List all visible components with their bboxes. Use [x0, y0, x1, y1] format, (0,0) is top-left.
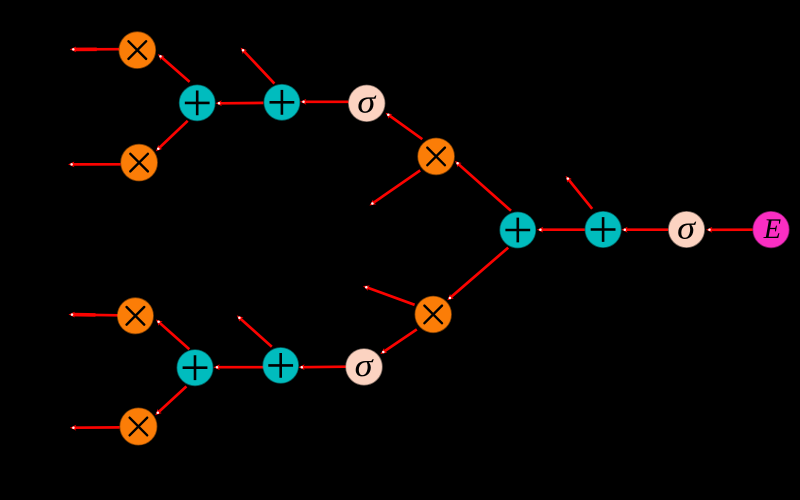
error node N10 (circle with letter E)	[753, 212, 789, 248]
wire from plus N14 to times N16	[155, 386, 186, 415]
sigmoid node N12 (circle with sigma)	[346, 349, 382, 385]
wire from plus N14 to times N15	[156, 320, 189, 350]
wire from plus N3 to times N1	[158, 54, 190, 82]
add node N14 (circle with plus sign)	[177, 350, 212, 385]
wire from plus N4 to plus N3	[216, 100, 264, 106]
wire from sigma N5 to plus N4	[300, 99, 349, 105]
add node N13 (circle with plus sign)	[263, 348, 298, 383]
wire stub from times N11 to input label	[363, 286, 415, 305]
wire stub from plus N8 to bias label	[566, 176, 593, 209]
wire from times N16 to weight label (left)	[70, 425, 120, 431]
wire from plus N7 to times N11	[447, 248, 508, 301]
wire from sigma N9 to plus N8	[621, 227, 668, 233]
wire from plus N7 to times N6	[455, 161, 511, 211]
wire from plus N3 to times N2	[156, 121, 188, 151]
add node N8 (circle with plus sign)	[585, 212, 620, 247]
add node N7 (circle with plus sign)	[500, 212, 535, 247]
multiply node N16 (circle with times sign)	[120, 408, 156, 444]
wire stub from plus N4 to bias label	[241, 48, 275, 84]
wire from plus N13 to plus N14	[214, 364, 265, 370]
multiply node N6 (circle with times sign)	[418, 138, 454, 174]
wire from E N10 to sigma N9	[706, 227, 753, 233]
wire from times N6 to sigma N5	[386, 113, 423, 139]
multiply node N2 (circle with times sign)	[121, 145, 157, 181]
wire from sigma N12 to plus N13	[298, 364, 346, 370]
wire from times N15 to weight label (left)	[69, 312, 119, 318]
sigmoid node N9 (circle with sigma)	[669, 212, 704, 247]
multiply node N11 (circle with times sign)	[415, 297, 451, 333]
wire from times N11 to sigma N12	[380, 329, 416, 354]
add node N3 (circle with plus sign)	[180, 85, 215, 120]
add node N4 (circle with plus sign)	[264, 85, 299, 120]
multiply node N15 (circle with times sign)	[118, 298, 153, 333]
sigmoid node N5 (circle with sigma)	[349, 85, 385, 121]
wire from plus N8 to plus N7	[537, 227, 585, 233]
multiply node N1 (circle with times sign)	[119, 32, 155, 68]
wire from times N2 to weight label (left)	[68, 162, 120, 168]
wire stub from times N6 to input label	[370, 170, 421, 205]
wire from times N1 to weight label (left)	[70, 47, 119, 53]
wire stub from plus N13 to bias label	[237, 315, 272, 346]
